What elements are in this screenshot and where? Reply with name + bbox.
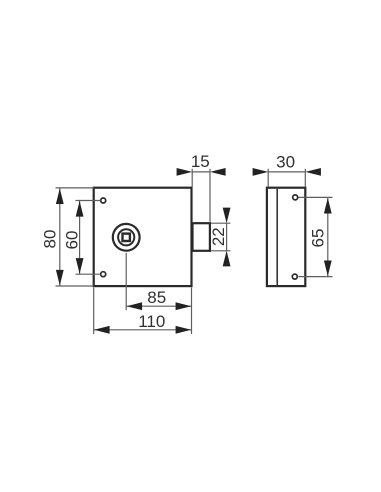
- dim 60 extension top: [76, 200, 101, 202]
- dim 85 extension left (from cylinder): [125, 253, 127, 310]
- dim 110 arrow right: [176, 326, 192, 334]
- dim 15 extension right: [209, 169, 211, 223]
- dim 60 line: [79, 201, 81, 274]
- dim 65 arrow up: [324, 198, 332, 214]
- svg-text:65: 65: [309, 229, 328, 248]
- svg-text:30: 30: [276, 152, 295, 171]
- dim 30 line: [268, 171, 305, 173]
- dim 85 arrow right: [176, 302, 192, 310]
- svg-text:85: 85: [147, 288, 166, 307]
- side screw hole top: [293, 195, 298, 200]
- bolt (deadbolt): [193, 223, 210, 251]
- dim 22 arrow bottom outside: [223, 251, 231, 267]
- dim 30 arrow right outside: [305, 168, 321, 176]
- side screw hole bottom: [292, 274, 297, 279]
- dim 30 arrow left outside: [253, 168, 269, 176]
- dim 65 extension top: [299, 196, 333, 198]
- dim 110 / 85 shared extension right: [191, 288, 193, 335]
- dim 65 arrow down: [324, 261, 332, 277]
- side view inner line: [276, 189, 278, 285]
- dim 15 arrow left outside: [177, 168, 193, 176]
- dim 22 extension top: [211, 222, 230, 224]
- cylinder square spindle: [123, 234, 130, 241]
- screw hole bottom-left: [101, 272, 106, 277]
- cylinder outer circle: [113, 224, 140, 251]
- dim 15 extension left: [191, 169, 193, 187]
- dim 85 line: [127, 305, 192, 307]
- svg-text:60: 60: [62, 231, 81, 250]
- dim 80 extension bottom: [56, 285, 94, 287]
- dim 65 extension bottom: [299, 276, 333, 278]
- svg-text:22: 22: [209, 227, 228, 246]
- lock body front view: [94, 188, 192, 286]
- dim 65 line: [327, 198, 329, 276]
- dim 60 arrow down: [76, 258, 84, 274]
- dim 80 extension top: [56, 187, 94, 189]
- dim 22 arrow top outside: [223, 208, 231, 224]
- dim 30 extension right: [304, 169, 306, 187]
- dim 110 arrow left: [94, 326, 110, 334]
- dim 60 extension bottom: [76, 273, 101, 275]
- svg-text:80: 80: [41, 230, 60, 249]
- screw hole top-left: [101, 198, 106, 203]
- dim 22 extension bottom: [211, 250, 230, 252]
- dim 80 arrow down: [56, 270, 64, 286]
- dim 30 extension left: [267, 169, 269, 187]
- dim 110 extension left: [93, 288, 95, 335]
- dim 85 arrow left: [127, 302, 143, 310]
- dim 15 arrow right outside: [210, 168, 226, 176]
- dim 15 line: [192, 171, 210, 173]
- dim 60 arrow up: [76, 201, 84, 217]
- dim 80 arrow up: [56, 188, 64, 204]
- cylinder inner circle: [118, 229, 134, 245]
- dim 22 line: [226, 223, 228, 251]
- svg-text:110: 110: [138, 312, 165, 331]
- side view plate: [267, 188, 305, 286]
- svg-text:15: 15: [191, 152, 210, 171]
- dim 110 line: [94, 329, 191, 331]
- dim 80 line: [59, 188, 61, 285]
